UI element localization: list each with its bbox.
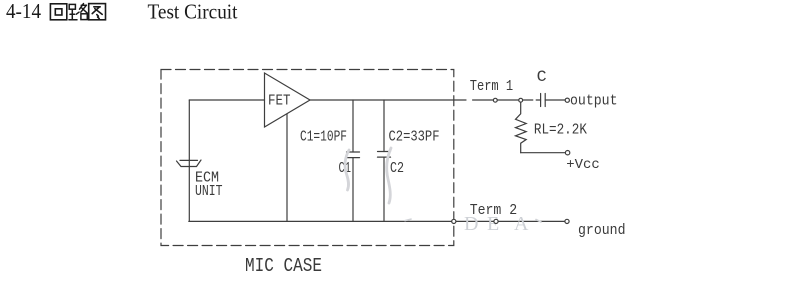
svg-text:+Vcc: +Vcc <box>566 157 600 173</box>
svg-text:C: C <box>537 68 547 86</box>
label +Vcc <box>566 157 600 173</box>
svg-text:E: E <box>487 213 499 235</box>
label C <box>537 68 547 86</box>
label RL=2.2K <box>534 122 587 139</box>
capacitor C1 plates <box>347 152 360 158</box>
watermark swoosh near C2 <box>387 148 391 203</box>
svg-text:C1=10PF: C1=10PF <box>300 129 347 146</box>
wire: left vertical through ECM <box>188 100 190 221</box>
terminal node output <box>565 98 569 102</box>
svg-text:RL=2.2K: RL=2.2K <box>534 122 587 139</box>
title text 4-14 <box>6 0 41 23</box>
watermark tick on ground rail <box>405 219 541 222</box>
label Term 2 <box>470 202 518 219</box>
label C2=33PF <box>389 129 440 146</box>
title text Test Circuit <box>148 0 238 23</box>
svg-text:A: A <box>514 213 529 235</box>
svg-text:C2=33PF: C2=33PF <box>389 129 440 146</box>
transistor FET (buffer triangle) <box>265 73 311 127</box>
terminal node ground <box>565 219 569 223</box>
label output <box>570 93 618 110</box>
title CJK 路 <box>69 4 88 20</box>
capacitor C1 branch wire lower <box>352 158 354 222</box>
ECM capsule symbol <box>177 160 202 167</box>
svg-text:D: D <box>464 213 478 235</box>
wire: ground rail (bottom) <box>189 220 567 222</box>
svg-text:ground: ground <box>578 222 626 239</box>
junction node box edge Term2 <box>452 219 456 223</box>
svg-text:MIC CASE: MIC CASE <box>245 255 322 277</box>
title CJK 回 <box>50 4 66 20</box>
title CJK 图 <box>89 4 106 20</box>
terminal node Term1 <box>493 98 497 102</box>
wire: gate input from left corner to FET <box>189 99 264 101</box>
svg-text:Term 1: Term 1 <box>470 78 514 95</box>
resistor RL zigzag <box>516 102 527 153</box>
junction node RL tap <box>519 98 523 102</box>
label C2 <box>390 160 404 177</box>
label C1 <box>339 160 352 177</box>
svg-text:output: output <box>570 93 618 110</box>
svg-text:C2: C2 <box>390 160 404 177</box>
label C1=10PF <box>300 129 347 146</box>
svg-text:Test Circuit: Test Circuit <box>148 0 238 23</box>
label ground <box>578 222 626 239</box>
capacitor C2 branch wire lower <box>383 157 385 221</box>
svg-text:FET: FET <box>268 92 291 109</box>
wire: RL bottom to Vcc terminal <box>521 152 566 154</box>
wire: cap to output terminal <box>545 99 565 101</box>
svg-text:UNIT: UNIT <box>195 183 223 200</box>
svg-text:4-14: 4-14 <box>6 0 41 23</box>
terminal node +Vcc <box>565 151 569 155</box>
label MIC CASE <box>245 255 322 277</box>
capacitor C2 plates <box>378 152 391 158</box>
capacitor C2 branch wire upper <box>383 100 385 152</box>
label FET <box>268 92 291 109</box>
watermark swoosh near C1 <box>345 150 349 190</box>
coupling capacitor C plates <box>541 94 546 107</box>
label ECM UNIT <box>195 170 223 200</box>
wire: FET drain down to ground rail <box>286 114 288 222</box>
MIC CASE dashed enclosure box <box>161 70 454 246</box>
watermark letters near Term2 <box>464 213 529 235</box>
wire: FET output rail to coupling cap <box>310 99 541 101</box>
terminal node Term2 <box>494 219 498 223</box>
label Term 1 <box>470 78 514 95</box>
capacitor C1 branch wire upper <box>352 100 354 152</box>
